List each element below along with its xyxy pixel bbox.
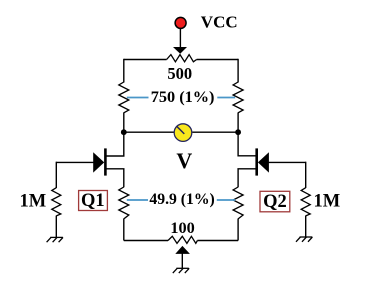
- reference label Q1: [79, 191, 108, 212]
- wire right rail to meter node: [237, 113, 239, 133]
- svg-text:Q2: Q2: [263, 192, 287, 212]
- node dot left meter junction: [121, 129, 127, 135]
- leader line right to 49.9 label: [217, 199, 235, 201]
- top rail wire right segment: [197, 59, 239, 61]
- ground bottom: [173, 268, 189, 273]
- svg-text:49.9 (1%): 49.9 (1%): [149, 191, 214, 208]
- top rail wire left segment: [124, 59, 167, 61]
- wire left gate branch vertical: [55, 162, 57, 188]
- wire Q2 source lead: [238, 169, 257, 188]
- reference label Q2: [260, 191, 290, 212]
- wire left rail lower: [123, 219, 125, 241]
- svg-text:Q1: Q1: [81, 191, 105, 211]
- svg-text:500: 500: [167, 64, 192, 83]
- wire Q1 drain lead: [105, 131, 123, 156]
- potentiometer 500 wiper arrow: [173, 47, 187, 54]
- wire left rail to meter node: [123, 113, 125, 133]
- resistor 49.9 right: [233, 187, 243, 219]
- wire right rail lower: [237, 219, 239, 241]
- wire meter right: [192, 131, 238, 133]
- svg-text:1M: 1M: [20, 191, 47, 211]
- potentiometer body 100: [168, 236, 197, 243]
- resistor 1M left: [52, 188, 61, 216]
- leader line right to 750 label: [217, 97, 235, 99]
- wire left rail upper: [123, 59, 125, 83]
- transistor Q1: [93, 148, 105, 175]
- ground right: [296, 237, 312, 242]
- potentiometer 100 wiper arrow: [175, 246, 190, 254]
- leader line left to 49.9 label: [127, 199, 148, 201]
- bottom rail wire right segment: [197, 240, 238, 242]
- wire 1M right to ground: [305, 216, 307, 237]
- wire Q1 source lead: [105, 169, 123, 188]
- svg-text:100: 100: [170, 218, 194, 237]
- wire VCC terminal to wiper arrow: [179, 29, 181, 47]
- svg-text:VCC: VCC: [201, 13, 238, 32]
- resistor 750 left: [119, 82, 129, 113]
- node dot right meter junction: [235, 129, 241, 135]
- bottom rail wire left segment: [124, 240, 168, 242]
- voltmeter V1: [174, 124, 192, 142]
- resistor 1M right: [301, 188, 310, 216]
- wire Q2 gate: [269, 161, 306, 163]
- wire Q1 gate: [56, 161, 93, 163]
- leader line left to 750 label: [127, 97, 149, 99]
- wire meter left: [124, 131, 174, 133]
- wire Q2 drain lead: [238, 131, 257, 156]
- svg-text:750 (1%): 750 (1%): [151, 87, 215, 106]
- svg-text:1M: 1M: [314, 192, 341, 212]
- wire wiper to ground: [181, 253, 183, 268]
- resistor 750 right: [233, 82, 243, 113]
- wire 1M left to ground: [55, 216, 57, 238]
- ground left: [47, 237, 63, 242]
- wire right rail upper: [237, 59, 239, 83]
- transistor Q2: [257, 148, 269, 175]
- VCC terminal: [175, 17, 186, 28]
- wire right gate branch vertical: [305, 162, 307, 188]
- svg-text:V: V: [176, 148, 192, 173]
- potentiometer body 500: [167, 55, 197, 62]
- resistor 49.9 left: [119, 187, 129, 219]
